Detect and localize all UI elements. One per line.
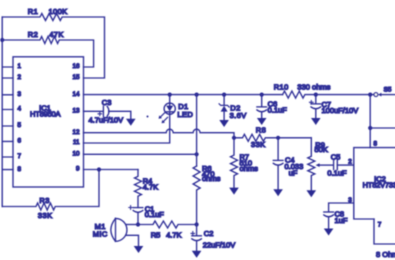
resistor R4 4.7K bbox=[135, 170, 142, 208]
svg-text:3: 3 bbox=[18, 91, 22, 98]
svg-text:100K: 100K bbox=[48, 7, 67, 16]
svg-text:2: 2 bbox=[18, 74, 22, 81]
capacitor C7 100uF/10V bbox=[315, 95, 317, 104]
capacitor C8 1uF bbox=[324, 211, 334, 213]
IC1 left pin stubs 1-8 to rail bbox=[2, 67, 13, 170]
wire: IC2 pin 3 to C8 bbox=[329, 203, 354, 212]
svg-text:8: 8 bbox=[18, 166, 22, 173]
svg-text:0.1uF: 0.1uF bbox=[145, 210, 165, 219]
resistor R6 470 ohms bbox=[193, 166, 200, 225]
svg-text:R1: R1 bbox=[28, 7, 38, 16]
node: R5/C1/mic junction bbox=[136, 222, 140, 226]
svg-text:6: 6 bbox=[18, 138, 22, 145]
svg-text:10: 10 bbox=[72, 151, 80, 158]
svg-text:33K: 33K bbox=[38, 211, 53, 220]
svg-text:11: 11 bbox=[73, 139, 80, 146]
wire: mic (-) to ground bbox=[126, 235, 139, 246]
wire: IC2 pin 7 to speaker (8 Ohm) bbox=[374, 219, 395, 244]
svg-text:47K: 47K bbox=[49, 30, 64, 39]
LED D1 (with wire from rail down to pin 11) bbox=[169, 95, 171, 106]
svg-text:S5: S5 bbox=[384, 86, 392, 93]
svg-text:C5: C5 bbox=[331, 152, 341, 161]
zener diode D2 3.6V bbox=[223, 95, 225, 106]
svg-text:LED: LED bbox=[177, 110, 193, 119]
wire: V+ drop to IC2 pin 8 with branch to right edge bbox=[369, 95, 371, 148]
resistor R3 33K (with wire up to pin 9 junction) bbox=[2, 170, 99, 211]
IC U2: IC2 HT82V733 body (cut at right edge) bbox=[354, 148, 395, 219]
svg-text:7: 7 bbox=[18, 153, 22, 160]
resistor R10 330 ohms (in VDD rail) bbox=[283, 91, 374, 98]
junction dot on rail at R2 bbox=[0, 38, 4, 42]
svg-text:330 ohms: 330 ohms bbox=[297, 83, 330, 92]
svg-text:R3: R3 bbox=[39, 196, 49, 205]
resistor R8 33K bbox=[234, 134, 311, 141]
switch S5 (pushbutton, circle + arrow) bbox=[374, 93, 378, 97]
svg-text:R5: R5 bbox=[151, 231, 161, 240]
wire: pin 14 VDD rail segment A bbox=[84, 94, 283, 96]
IC U1: IC1 HT8950A body bbox=[13, 57, 84, 187]
resistor R1 100K (with wire to pin 15) bbox=[2, 14, 104, 79]
potentiometer R9 50K bbox=[308, 138, 315, 190]
LED D1 emission arrows bbox=[160, 113, 168, 123]
svg-text:0.1uF: 0.1uF bbox=[268, 106, 288, 115]
svg-text:R8: R8 bbox=[256, 125, 266, 134]
svg-text:uF: uF bbox=[289, 168, 298, 177]
wire: pin 10 to R6 column bbox=[84, 153, 197, 155]
svg-text:33K: 33K bbox=[251, 140, 266, 149]
svg-text:R10: R10 bbox=[274, 83, 289, 92]
svg-text:ohms: ohms bbox=[202, 174, 221, 183]
svg-text:C3: C3 bbox=[102, 98, 112, 107]
svg-text:C2: C2 bbox=[204, 229, 214, 238]
svg-text:4.7uF/10V: 4.7uF/10V bbox=[89, 116, 124, 125]
capacitor C1 0.1uF bbox=[133, 207, 143, 209]
svg-text:HT8950A: HT8950A bbox=[30, 110, 60, 119]
capacitor C5 0.1uF bbox=[334, 161, 338, 170]
wire: mic (+) to node bbox=[126, 224, 138, 226]
wire: R6 column from VDD rail down bbox=[196, 95, 198, 166]
microphone M1 bbox=[111, 218, 116, 241]
svg-text:50K: 50K bbox=[315, 145, 328, 154]
svg-text:MIC: MIC bbox=[93, 230, 108, 239]
svg-text:15: 15 bbox=[72, 74, 80, 81]
svg-text:13: 13 bbox=[72, 108, 80, 115]
svg-text:12: 12 bbox=[72, 129, 80, 136]
wire: left vertical rail (VSS bus) bbox=[1, 17, 3, 207]
wire: pin 9 to R4 top bbox=[84, 169, 139, 171]
resistor R7 510 ohms bbox=[231, 138, 238, 188]
svg-text:9: 9 bbox=[76, 166, 80, 173]
svg-text:2: 2 bbox=[348, 158, 352, 165]
capacitor C4 0.033uF bbox=[277, 138, 279, 160]
svg-text:4.7K: 4.7K bbox=[143, 183, 158, 192]
svg-text:ohms: ohms bbox=[240, 164, 259, 173]
node: R5/R6/C2 junction bbox=[195, 222, 199, 226]
capacitor C2 22uF/10V bbox=[196, 225, 198, 236]
svg-text:14: 14 bbox=[72, 91, 80, 98]
capacitor C3 4.7uF/10V on pin 13 bbox=[84, 110, 104, 112]
svg-text:4: 4 bbox=[18, 106, 22, 113]
wire: pin 12 with two crossover humps, to R8/R7 node bbox=[84, 129, 235, 138]
svg-text:100uF/10V: 100uF/10V bbox=[322, 106, 359, 115]
svg-text:HT82V733: HT82V733 bbox=[363, 180, 395, 189]
svg-text:8 Ohm: 8 Ohm bbox=[376, 250, 395, 259]
svg-text:1uF: 1uF bbox=[335, 216, 348, 225]
stray printed dot bbox=[147, 116, 149, 118]
resistor R2 47K (with wire to pin 16) bbox=[2, 37, 93, 68]
svg-text:22uF/10V: 22uF/10V bbox=[203, 240, 236, 249]
capacitor C6 0.1uF bbox=[261, 95, 263, 107]
svg-text:7: 7 bbox=[378, 221, 382, 228]
R9 wiper arrow to C5 bbox=[319, 164, 333, 166]
ground arrow below C3 bbox=[126, 119, 136, 126]
svg-text:0.1uF: 0.1uF bbox=[327, 169, 347, 178]
resistor R5 4.7K bbox=[138, 221, 197, 228]
svg-text:5: 5 bbox=[18, 122, 22, 129]
svg-text:16: 16 bbox=[72, 63, 80, 70]
svg-text:3.6V: 3.6V bbox=[230, 111, 247, 120]
svg-text:4.7K: 4.7K bbox=[166, 231, 181, 240]
svg-text:R2: R2 bbox=[28, 30, 38, 39]
svg-text:8: 8 bbox=[374, 141, 378, 148]
svg-text:1: 1 bbox=[18, 63, 22, 70]
VDD rail junction dots bbox=[168, 93, 172, 97]
